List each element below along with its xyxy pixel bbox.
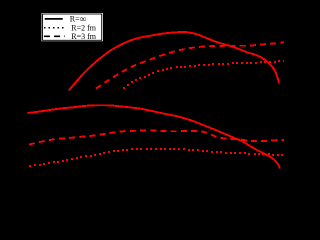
legend sample: dashed line [44, 35, 65, 37]
legend box [42, 13, 103, 41]
curve: upper R=2 fm (dotted red) [123, 60, 285, 89]
curve: upper R=3 fm (dashed red) [96, 42, 284, 88]
svg-text:R=3 fm: R=3 fm [71, 32, 97, 41]
legend sample: dotted line [44, 27, 64, 29]
curve: lower R=inf (solid red) [28, 105, 281, 168]
curve: upper R=inf (solid red) [69, 32, 279, 90]
curve: lower R=3 fm (dashed red) [29, 130, 284, 144]
curve: lower R=2 fm (dotted red) [29, 148, 283, 167]
legend sample: solid line [45, 18, 63, 20]
